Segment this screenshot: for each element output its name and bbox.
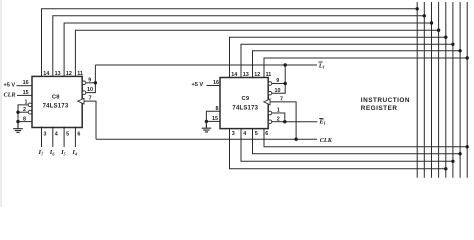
wire C9 pin4 to bus 6 [241, 128, 453, 161]
svg-text:1: 1 [25, 100, 28, 106]
wire C8 output pin6 [74, 127, 76, 148]
junction C9 pin2 Ei tee [283, 120, 286, 123]
clock chevron C9 pin7 [264, 99, 270, 105]
svg-text:CLK: CLK [320, 137, 333, 144]
junction bus6 top [451, 43, 454, 46]
wire C9 pin5 to bus 7 [253, 128, 461, 154]
svg-text:74LS173: 74LS173 [43, 103, 69, 109]
wire C9 pin1 to Ei line [272, 113, 285, 122]
wire C9 pin13 to bus 6 [241, 44, 453, 77]
svg-text:13: 13 [55, 71, 61, 77]
svg-text:16: 16 [23, 80, 29, 86]
svg-text:15: 15 [23, 90, 29, 96]
svg-text:2: 2 [23, 107, 26, 113]
junction bus5 top [444, 36, 447, 39]
wire CLK line [96, 138, 317, 140]
inverter bubble C8 pin9 [82, 81, 86, 85]
svg-text:14: 14 [43, 71, 49, 77]
wire C8 pin8 to ground rail [18, 121, 32, 123]
inverter bubble C8 pin1 [28, 103, 32, 107]
svg-text:9: 9 [276, 78, 279, 84]
svg-text:3: 3 [44, 132, 47, 138]
inverter bubble C9 pin9 [268, 82, 272, 86]
wire C8 pin14 to bus 1 [42, 9, 418, 77]
svg-text:9: 9 [88, 78, 91, 84]
junction C9 pin9 tee [284, 82, 287, 85]
svg-text:INSTRUCTION: INSTRUCTION [361, 97, 410, 104]
junction C9 clock on CLK [294, 138, 297, 141]
svg-text:5: 5 [255, 131, 258, 137]
wire C8 pin13 to bus 2 [53, 16, 425, 77]
wire C9 pin7 to CLK line [270, 102, 296, 139]
wire +5V to C8 pin16 [17, 85, 33, 87]
junction bus7 bottom [458, 152, 461, 155]
svg-text:4: 4 [55, 132, 58, 138]
wire C9 pin12 to bus 7 [253, 51, 461, 78]
svg-text:7: 7 [89, 95, 92, 101]
bus line 1 [416, 2, 418, 178]
svg-text:15: 15 [212, 116, 218, 122]
junction bus8 top [466, 56, 469, 59]
register U2 (C9 74LS173) body [220, 78, 268, 129]
junction bus5 bottom [444, 167, 447, 170]
junction bus1 top [416, 7, 419, 10]
wire C9 pin15 to ground rail [206, 120, 220, 122]
wire C9 pin6 to bus 8 [264, 128, 467, 147]
bus line 2 [423, 2, 425, 178]
svg-text:CLR: CLR [4, 92, 16, 99]
junction C8 pin2 ground [16, 111, 19, 114]
svg-text:10: 10 [87, 87, 93, 93]
clock chevron C8 pin7 [78, 98, 84, 104]
inverter bubble C9 pin1 [268, 111, 272, 115]
svg-text:C9: C9 [241, 96, 249, 102]
inverter bubble C8 pin10 [82, 91, 86, 95]
junction C9 load tee on Li [284, 63, 287, 66]
wire Ei line [285, 121, 318, 123]
svg-text:LI: LI [318, 62, 325, 69]
register U1 (C8 74LS173) body [32, 76, 82, 127]
inverter bubble C9 pin2 [268, 120, 272, 124]
junction bus6 bottom [451, 160, 454, 163]
wire C8 output pin4 [52, 127, 54, 148]
bus line 4 [438, 2, 440, 178]
svg-text:12: 12 [254, 72, 260, 78]
inverter bubble C8 pin2 [28, 110, 32, 114]
svg-text:3: 3 [232, 131, 235, 137]
wire C8 pins9,10 to Li line [86, 82, 96, 84]
bus line 6 [452, 2, 454, 178]
ground symbol C9 [202, 121, 212, 131]
svg-text:1: 1 [277, 108, 280, 114]
wire C8 pin7 to CLK line [84, 101, 97, 139]
wire C8 pin2 to ground rail [18, 111, 28, 113]
svg-text:10: 10 [275, 88, 281, 94]
wire Li line [95, 64, 317, 66]
svg-text:2: 2 [277, 116, 280, 122]
wire C9 pin10 to Li vertical [272, 65, 285, 93]
inverter bubble C9 pin10 [268, 91, 272, 95]
wire +5V to C9 pin16 [207, 85, 221, 87]
svg-text:8: 8 [216, 106, 219, 112]
bus line 5 [445, 2, 447, 178]
junction bus8 bottom [466, 145, 469, 148]
svg-text:REGISTER: REGISTER [361, 105, 398, 112]
junction C9 pin15 ground [205, 120, 208, 123]
wire C8 output pin3 [41, 127, 43, 148]
svg-text:13: 13 [243, 72, 249, 78]
svg-text:74LS173: 74LS173 [232, 105, 258, 111]
svg-text:6: 6 [77, 132, 80, 138]
svg-text:+5 V: +5 V [192, 82, 204, 88]
junction bus4 top [437, 29, 440, 32]
svg-text:+5 V: +5 V [4, 82, 16, 88]
svg-text:11: 11 [266, 72, 272, 78]
wire C9 pin9 to Li vertical [272, 83, 285, 85]
junction bus7 top [458, 49, 461, 52]
wire CLR to C8 pin15 [17, 94, 32, 96]
wire C8 pin11 to bus 4 [75, 30, 438, 76]
wire C9 pin2 to Ei line [272, 121, 285, 123]
svg-text:7: 7 [280, 96, 283, 102]
wire C9 pin14 to bus 5 [230, 37, 446, 77]
scan edge shading [0, 0, 2, 207]
wire C8 pin1 to ground rail [18, 105, 28, 128]
junction bus2 top [423, 14, 426, 17]
bus line 3 [431, 2, 433, 178]
wire C9 pin3 to bus 5 [230, 128, 446, 169]
svg-text:EI: EI [318, 119, 325, 126]
ground symbol C8 [13, 122, 23, 132]
junction C8 pin9 tee [94, 81, 97, 84]
svg-text:12: 12 [66, 71, 72, 77]
svg-text:5: 5 [66, 132, 69, 138]
wire C8 pin12 to bus 3 [64, 23, 431, 77]
svg-text:C8: C8 [52, 95, 60, 101]
junction C8 pin8 ground [16, 120, 19, 123]
svg-text:4: 4 [243, 131, 246, 137]
svg-text:16: 16 [213, 80, 219, 86]
svg-text:8: 8 [23, 116, 26, 122]
junction bus3 top [430, 21, 433, 24]
bus line 8 [466, 2, 468, 178]
wire C9 pin8 to ground rail [206, 111, 220, 127]
svg-text:11: 11 [77, 71, 83, 77]
bus line 7 [459, 2, 461, 178]
wire C8 output pin5 [63, 127, 65, 148]
wire C9 pin11 to bus 8 [264, 58, 467, 78]
svg-text:14: 14 [231, 72, 237, 78]
svg-text:6: 6 [265, 131, 268, 137]
